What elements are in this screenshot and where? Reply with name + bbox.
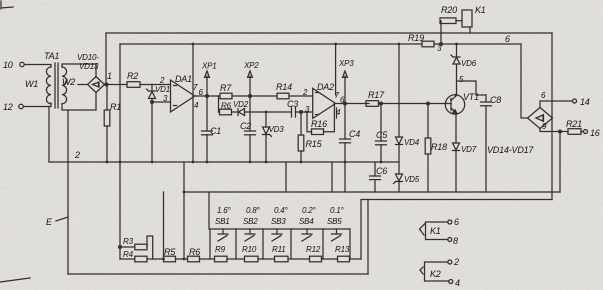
svg-text:VD1: VD1: [155, 85, 170, 94]
svg-text:VD14-VD17: VD14-VD17: [487, 145, 534, 155]
test point XP3: [338, 59, 354, 104]
terminal 6 contact K1: [448, 217, 459, 227]
svg-text:0.4°: 0.4°: [274, 206, 289, 215]
svg-text:R6: R6: [189, 247, 200, 257]
capacitor C2: [240, 112, 256, 162]
svg-text:SB3: SB3: [271, 217, 286, 226]
svg-text:VD13: VD13: [79, 62, 99, 71]
wire DA2 output: [336, 103, 369, 105]
svg-text:R20: R20: [441, 5, 457, 15]
svg-text:W1: W1: [25, 79, 38, 89]
wire bottom thick rail: [68, 273, 368, 275]
wire drop rail192 to R5 left junction: [163, 192, 165, 259]
zener diode VD1: [147, 85, 170, 163]
test point XP1: [201, 62, 217, 97]
svg-text:0.8°: 0.8°: [246, 206, 261, 215]
wire E vertical from W2 bottom wire down to bottom rail: [67, 110, 69, 274]
resistor R17: [366, 90, 446, 106]
wire drop rail192 to ladder corner: [208, 192, 210, 229]
resistor R5: [164, 247, 188, 262]
zener diode VD6: [451, 44, 477, 77]
svg-text:0.2°: 0.2°: [302, 206, 317, 215]
test point XP2: [243, 61, 259, 96]
resistor R20: [440, 5, 457, 44]
resistor R18: [425, 102, 447, 192]
resistor R7: [220, 83, 232, 99]
wire upper bottom rail: [184, 191, 560, 193]
capacitor C3: [287, 99, 313, 117]
svg-text:XP3: XP3: [338, 59, 354, 68]
terminal 16: [584, 128, 600, 138]
svg-text:4: 4: [455, 278, 460, 288]
node 3: [437, 43, 442, 53]
resistor R14: [276, 82, 313, 99]
svg-text:XP1: XP1: [201, 62, 217, 71]
diode VD2: [232, 100, 251, 116]
resistor R4: [120, 250, 164, 262]
zener diode VD5: [394, 174, 420, 192]
terminal 2 contact K2: [448, 257, 459, 267]
transistor VT1: [445, 92, 479, 114]
wire inner rail left vertical x120: [119, 44, 121, 259]
pushbutton SB1: [215, 206, 232, 241]
relay contact K2: [420, 262, 449, 281]
inner top rail y44: [120, 43, 521, 45]
wire node9 drop to upper bottom rail: [559, 132, 561, 193]
svg-text:VD10-: VD10-: [77, 53, 99, 62]
svg-text:R18: R18: [431, 142, 447, 152]
wire ladder output: [350, 258, 362, 260]
svg-text:R5: R5: [164, 247, 176, 257]
svg-text:C4: C4: [349, 129, 360, 139]
op-amp DA1: [159, 74, 204, 112]
svg-text:2: 2: [453, 257, 459, 267]
svg-text:1.6°: 1.6°: [217, 206, 232, 215]
wire link rails x286: [285, 162, 287, 192]
svg-text:VD4: VD4: [404, 138, 420, 147]
svg-text:R16: R16: [311, 119, 327, 129]
node 2 label: [74, 150, 80, 160]
junction dots on rails: [106, 43, 458, 261]
svg-text:R10: R10: [242, 245, 257, 254]
wire DA1 output: [195, 95, 220, 97]
svg-text:8: 8: [453, 236, 458, 246]
svg-text:R12: R12: [306, 245, 321, 254]
wire op-amp DA1 pin3 input: [151, 101, 171, 104]
capacitor C5: [376, 102, 389, 162]
wire W2 bottom to bridge bottom vertex: [62, 93, 96, 111]
resistor R12: [306, 245, 338, 262]
svg-text:2: 2: [74, 150, 80, 160]
svg-text:VD7: VD7: [461, 145, 477, 154]
svg-text:VT1: VT1: [463, 92, 479, 102]
svg-text:SB5: SB5: [327, 217, 342, 226]
winding W1: [25, 67, 51, 104]
svg-text:K2: K2: [430, 269, 441, 279]
wire lower path to C3: [250, 111, 291, 113]
terminal 8 contact K1: [448, 236, 458, 246]
wire node1 up to top rail: [105, 33, 107, 85]
svg-text:16: 16: [590, 128, 600, 138]
svg-text:6: 6: [454, 217, 459, 227]
resistor R10: [242, 245, 275, 262]
capacitor C6: [370, 162, 388, 192]
terminal 10: [3, 60, 24, 70]
diode VD7: [453, 114, 477, 192]
node 1: [105, 71, 112, 86]
wire R7 to R14 with rejoin: [232, 95, 277, 112]
transformer core: [55, 63, 58, 108]
svg-text:VD3: VD3: [269, 125, 285, 134]
svg-text:R11: R11: [272, 245, 285, 254]
svg-text:1: 1: [107, 71, 112, 81]
transformer TA1: [44, 51, 59, 61]
svg-text:K1: K1: [475, 5, 486, 15]
svg-text:14: 14: [580, 97, 590, 107]
resistor R2: [127, 71, 171, 87]
svg-text:XP2: XP2: [243, 61, 259, 70]
svg-text:2: 2: [302, 88, 308, 97]
svg-text:K1: K1: [430, 226, 441, 236]
capacitor C8: [481, 95, 502, 192]
svg-text:R9: R9: [215, 245, 226, 254]
svg-text:VD2: VD2: [233, 100, 249, 109]
node 6 on inner rail: [505, 34, 510, 44]
svg-text:R21: R21: [566, 119, 582, 129]
resistor R6: [188, 247, 215, 262]
scan artifact top-left corner: [1, 1, 13, 9]
resistor R21: [566, 119, 584, 134]
svg-text:SB4: SB4: [299, 217, 314, 226]
svg-text:6: 6: [505, 34, 510, 44]
svg-text:0.1°: 0.1°: [330, 206, 345, 215]
pushbutton SB2: [243, 206, 261, 241]
wire node5 to VT1 collector and C8 jog: [457, 77, 487, 95]
resistor R15: [298, 111, 322, 162]
resistor R16 feedback: [307, 104, 334, 135]
wire bottom thick rail riser: [367, 200, 369, 275]
pushbutton SB5: [327, 206, 345, 241]
svg-text:12: 12: [3, 102, 13, 112]
svg-text:10: 10: [3, 60, 13, 70]
wire terminal10 to W1 top: [24, 65, 51, 68]
resistor R6a: [220, 102, 232, 115]
wire link rails x332: [331, 162, 333, 192]
svg-text:R4: R4: [123, 250, 134, 259]
wire main signal node1 to R2: [105, 84, 128, 86]
pushbutton SB3: [271, 206, 289, 241]
wire node2 drop from terminal12 wire: [48, 107, 50, 163]
pushbutton SB4: [299, 206, 317, 241]
wire drop rail to R6 left junction: [183, 162, 185, 259]
svg-text:R3: R3: [123, 237, 134, 246]
terminal 12: [3, 102, 23, 112]
resistor R3: [119, 236, 153, 259]
ladder top rail: [210, 228, 350, 230]
svg-text:R7: R7: [220, 83, 232, 93]
svg-text:VD5: VD5: [404, 175, 420, 184]
wire inner rail right vertical to bridge2: [521, 44, 528, 118]
wire DA1 supply rail vertical: [192, 44, 194, 162]
svg-text:R13: R13: [335, 245, 350, 254]
svg-text:C5: C5: [376, 130, 388, 140]
svg-text:DA1: DA1: [175, 74, 192, 84]
wire node2 common rail: [49, 161, 399, 163]
ladder divider wires: [210, 229, 350, 259]
svg-text:C3: C3: [287, 99, 298, 109]
svg-text:C8: C8: [490, 95, 501, 105]
svg-text:C6: C6: [376, 166, 387, 176]
diode VD4: [396, 44, 420, 174]
node E label: [46, 217, 68, 227]
terminal 14: [573, 97, 590, 107]
node 5: [459, 75, 464, 84]
wire top rail: [106, 32, 552, 34]
bridge rectifier VD10-VD13: [77, 53, 105, 93]
node 6 bridge2 top: [540, 91, 573, 108]
zener diode VD3: [263, 112, 285, 162]
bridge rectifier VD14-VD17: [487, 108, 553, 156]
winding W2: [62, 67, 75, 104]
resistor R19: [408, 33, 434, 47]
svg-text:SB2: SB2: [243, 217, 258, 226]
svg-text:R15: R15: [306, 139, 323, 149]
svg-text:TA1: TA1: [44, 51, 59, 61]
wire lower bottom rail: [361, 200, 552, 260]
svg-text:SB1: SB1: [215, 217, 230, 226]
resistor R11: [272, 245, 310, 262]
wire right side vertical of top rail down through bridge2 to lower bottom rail: [551, 33, 553, 200]
terminal 4 contact K2: [449, 278, 460, 288]
svg-text:R17: R17: [368, 90, 385, 100]
svg-text:VD6: VD6: [461, 59, 477, 68]
capacitor C1: [202, 95, 222, 162]
resistor R13: [335, 245, 350, 262]
wire R7 R6 split: [219, 96, 220, 112]
svg-text:2: 2: [159, 76, 165, 85]
resistor R1: [104, 85, 121, 163]
op-amp DA2: [302, 82, 345, 118]
wire terminal12 to W1 bottom: [23, 103, 51, 107]
scan artifact bottom-left smudge: [0, 278, 30, 282]
svg-text:R2: R2: [127, 71, 138, 81]
relay contact K1: [420, 222, 449, 240]
resistor R9: [215, 245, 245, 262]
relay coil K1: [456, 5, 486, 33]
svg-text:DA2: DA2: [317, 82, 334, 92]
svg-text:R14: R14: [276, 82, 292, 92]
capacitor C4: [340, 102, 361, 192]
wire DA2 supply vertical: [335, 44, 338, 118]
node 9 bridge2 bottom: [540, 122, 568, 133]
wire W2 top to bridge top vertex: [62, 64, 96, 77]
